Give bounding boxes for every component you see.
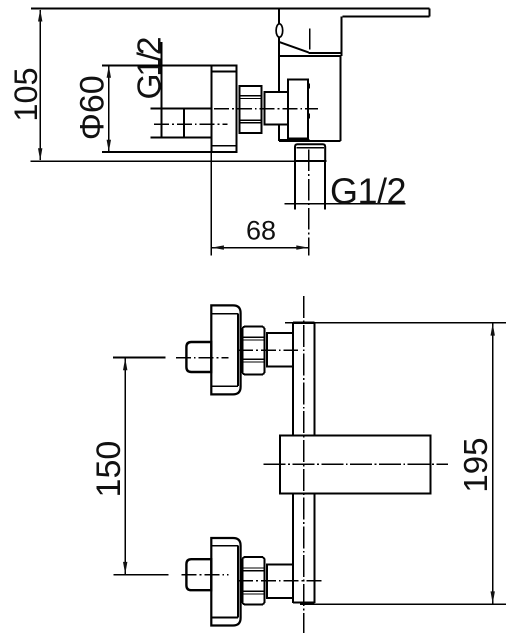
handle bar right end cap — [428, 9, 430, 17]
handle bonnet top line — [309, 52, 342, 54]
handle lever pivot stem — [278, 9, 280, 42]
dimension 105 line — [39, 10, 41, 160]
bottom escutcheon inner top line — [211, 545, 238, 547]
dimension phi60 arrow up — [107, 65, 111, 77]
dimension 68 extension left — [210, 152, 212, 255]
bottom escutcheon inner right line — [237, 546, 239, 618]
dimension 150 extension top — [113, 357, 166, 359]
outlet nut side view — [295, 144, 325, 161]
svg-text:Φ60: Φ60 — [74, 75, 112, 140]
hex nut facet lines — [239, 95, 261, 97]
side view knob port centerline — [154, 123, 228, 125]
bottom nut stem centerline — [238, 580, 324, 582]
bottom knob escutcheon front view — [211, 538, 240, 626]
top escutcheon inner bottom line — [211, 385, 238, 387]
front body bar right edge upper — [313, 323, 315, 436]
svg-text:150: 150 — [90, 441, 128, 498]
svg-text:68: 68 — [246, 216, 276, 246]
front body bar top edge — [293, 322, 315, 324]
side view knob bottom edge with extension — [150, 137, 211, 139]
bottom knob centerline — [182, 574, 229, 576]
front body bar right edge lower — [313, 493, 315, 602]
outlet nut inner line — [296, 147, 324, 149]
dimension 195 arrow up — [491, 323, 495, 335]
svg-text:G1/2: G1/2 — [132, 38, 169, 99]
outlet centerline — [308, 150, 310, 256]
wall plate side view — [211, 65, 236, 152]
front body bar left edge lower — [292, 493, 294, 602]
dimension 150 extension bottom — [114, 574, 169, 576]
bottom hex nut front view — [242, 557, 264, 605]
side view knob top edge merged with phi60 extension top — [102, 64, 236, 66]
faucet body right edge — [339, 56, 341, 141]
svg-text:195: 195 — [457, 438, 494, 493]
dimension 195 extension bottom — [300, 603, 506, 605]
bottom stem front view — [267, 565, 293, 598]
outlet pipe right edge — [324, 161, 326, 210]
dimension 195 extension top — [285, 322, 506, 324]
svg-text:G1/2: G1/2 — [330, 170, 406, 211]
top escutcheon inner right line — [237, 314, 239, 387]
dimension phi60 line — [108, 66, 110, 151]
G1/2 bottom leader line — [285, 203, 406, 205]
body escutcheon side view — [288, 80, 308, 139]
escutcheon clip tick lower — [308, 114, 310, 119]
handle bar bottom edge — [343, 15, 430, 17]
faucet body left edge lower segment — [278, 125, 280, 142]
top knob centerline — [176, 357, 229, 359]
dimension 105 arrow down — [38, 148, 42, 160]
dimension phi60 arrow down — [107, 140, 111, 152]
mixer body front view wide rectangle — [280, 435, 430, 493]
outlet pipe left edge — [294, 161, 296, 210]
handle lever bottom diagonal — [278, 42, 308, 53]
side view knob port top edge with extension — [150, 108, 211, 110]
bottom knob tip front view — [186, 559, 211, 590]
side view knob port left edge — [183, 109, 185, 138]
handle neck vertical — [340, 16, 342, 56]
bottom hex nut facet lines — [242, 567, 264, 569]
top hex nut front view — [242, 327, 264, 375]
faucet body left edge upper segment — [278, 42, 280, 92]
dimension 195 arrow down — [491, 591, 495, 603]
bottom escutcheon inner bottom line — [211, 617, 238, 619]
wall plate chamfer line top — [211, 70, 236, 72]
dimension 105 extension line bottom — [31, 160, 327, 162]
dimension 68 arrow right — [296, 245, 308, 249]
dimension 150 arrow down — [123, 562, 127, 574]
top escutcheon inner top line — [211, 313, 238, 315]
dimension 105 arrow up — [38, 9, 42, 21]
top knob tip front view — [186, 342, 211, 372]
hex nut side view — [239, 86, 261, 133]
mixer body horizontal centerline — [264, 463, 448, 465]
top knob escutcheon front view — [211, 305, 240, 394]
top hex nut facet lines — [242, 336, 264, 338]
dimension phi60 extension bottom merged with wall plate bottom — [102, 151, 236, 153]
connector piece side view — [265, 92, 288, 125]
front body bar bottom edge — [293, 601, 315, 603]
front body bar left edge upper — [292, 323, 294, 436]
body escutcheon bottom line — [279, 139, 309, 141]
top nut stem centerline — [238, 349, 298, 351]
top stem front view — [267, 333, 293, 367]
dimension 105 extension line top merged with handle top edge — [31, 8, 429, 10]
front body bar centerline — [303, 296, 305, 633]
faucet body bottom edge — [279, 140, 340, 142]
escutcheon clip tick upper — [308, 84, 310, 89]
faucet body side view top edge — [279, 55, 340, 57]
svg-text:105: 105 — [8, 67, 44, 121]
G1/2 top leader and knob left edge — [161, 42, 163, 138]
dimension 68 line — [212, 247, 308, 249]
main axis centerline side view — [214, 108, 318, 110]
dimension 68 arrow left — [212, 245, 224, 249]
wall plate chamfer line bottom — [211, 145, 236, 147]
handle lever pivot ellipse — [276, 24, 283, 37]
dimension 150 line — [124, 358, 126, 574]
dimension 150 arrow up — [123, 358, 127, 370]
handle lever front edge — [309, 28, 311, 49]
outlet nut bottom edge — [294, 160, 326, 162]
dimension 195 line — [492, 324, 494, 604]
